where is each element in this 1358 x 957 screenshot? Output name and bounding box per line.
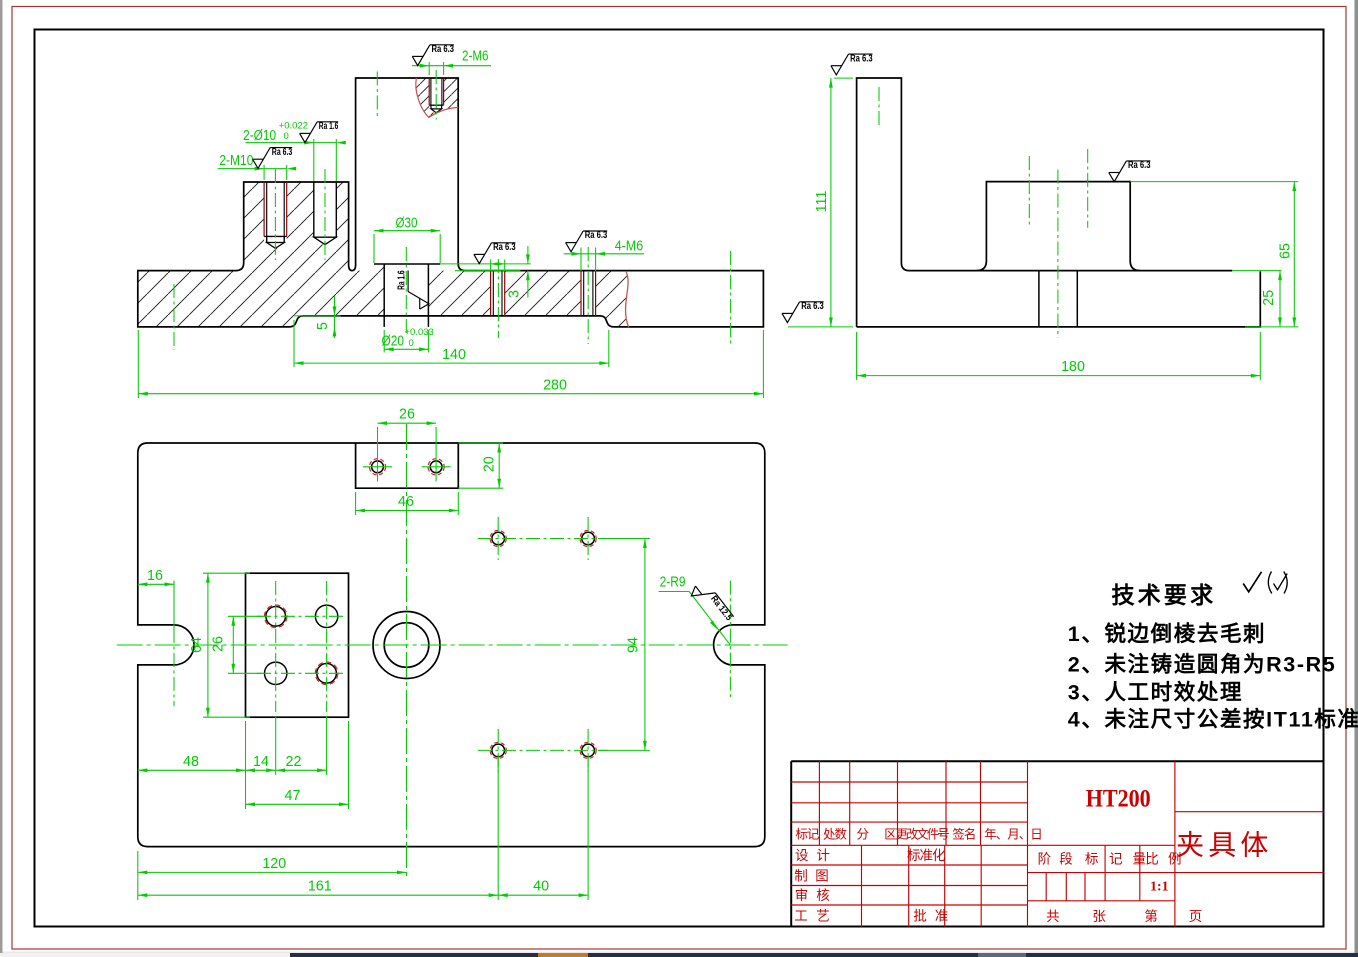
plan view: 4-M6 holes <box>492 532 505 545</box>
dimension 94 <box>598 538 650 540</box>
surface finish Ra 6.3 at boss top <box>412 44 454 66</box>
svg-text:4-M6: 4-M6 <box>615 238 644 254</box>
svg-text:张: 张 <box>1092 909 1106 924</box>
svg-text:分: 分 <box>856 828 869 842</box>
svg-text:Ra 6.3: Ra 6.3 <box>272 147 293 158</box>
section view: D10 hole <box>313 182 315 237</box>
dimension 26 boss holes <box>377 427 379 452</box>
dimension 3 counterbore depth <box>440 263 531 265</box>
surface finish Ra 6.3 side top <box>831 53 873 75</box>
svg-text:Ra 6.3: Ra 6.3 <box>432 44 455 55</box>
svg-text:140: 140 <box>442 347 466 363</box>
svg-text:2-R9: 2-R9 <box>660 575 686 591</box>
section view: M6 threaded hole at boss top <box>430 78 432 105</box>
svg-text:比: 比 <box>1145 852 1159 867</box>
svg-text:年、月、日: 年、月、日 <box>984 828 1042 842</box>
side view: outline <box>857 78 1233 327</box>
dimension 4-M6 <box>580 248 582 272</box>
section view: counterbore D30 bottom <box>374 263 440 265</box>
svg-text:65: 65 <box>1278 243 1294 259</box>
section view: M10 threaded hole <box>266 182 268 236</box>
svg-text:20: 20 <box>482 456 498 472</box>
svg-text:2-M6: 2-M6 <box>462 49 489 65</box>
dimension 140 <box>293 320 295 367</box>
svg-text:22: 22 <box>286 754 302 770</box>
dimensions 48 14 22 <box>245 721 247 775</box>
svg-text:3: 3 <box>507 290 523 298</box>
svg-text:标: 标 <box>1085 852 1099 867</box>
svg-text:更改文件号: 更改文件号 <box>895 827 949 842</box>
svg-text:图: 图 <box>815 868 829 883</box>
section view: hole centerlines <box>274 169 276 260</box>
section view: break line at boss top <box>416 78 458 117</box>
svg-text:标准化: 标准化 <box>907 848 945 863</box>
dimension 2-M10 <box>218 168 287 170</box>
surface finish note checkmarks <box>1243 572 1261 592</box>
svg-text:2、未注铸造圆角为R3-R5: 2、未注铸造圆角为R3-R5 <box>1068 652 1337 677</box>
side view: centerlines <box>878 87 880 128</box>
svg-text:161: 161 <box>308 879 332 895</box>
title block: outer border <box>791 760 1323 762</box>
svg-text:页: 页 <box>1189 909 1203 924</box>
svg-text:0: 0 <box>409 338 414 349</box>
dimension 47 <box>245 775 247 809</box>
svg-text:48: 48 <box>183 754 199 770</box>
svg-text:+0.022: +0.022 <box>279 120 308 131</box>
bottom taskbar sliver <box>3 952 1355 954</box>
section view: base hatching <box>138 264 629 327</box>
svg-text:Ra 6.3: Ra 6.3 <box>585 230 608 241</box>
svg-text:280: 280 <box>543 377 567 393</box>
section view: break line right of 4-M6 <box>626 271 629 327</box>
svg-text:Ø30: Ø30 <box>396 215 418 231</box>
svg-text:16: 16 <box>147 568 163 584</box>
svg-text:25: 25 <box>1261 290 1277 306</box>
svg-text:阶: 阶 <box>1038 852 1052 867</box>
svg-text:40: 40 <box>533 879 549 895</box>
svg-text:+0.033: +0.033 <box>405 327 434 338</box>
section view: hole D20 walls <box>383 264 385 327</box>
section view: 4-M6 threaded holes <box>492 271 494 316</box>
svg-text:标记: 标记 <box>795 828 820 842</box>
surface finish Ra 6.3 at counterbore <box>474 242 516 264</box>
svg-text:制: 制 <box>794 868 808 883</box>
svg-text:工: 工 <box>794 909 808 924</box>
svg-text:0: 0 <box>284 131 289 142</box>
surface finish Ra 1.6 in D20 hole <box>396 270 429 309</box>
svg-text:94: 94 <box>626 637 642 653</box>
svg-text:47: 47 <box>285 788 301 804</box>
section view: boss broken-out section hatching <box>416 78 458 117</box>
dimension 20 <box>458 442 503 444</box>
surface finish Ra 6.3 side bottom <box>782 301 824 323</box>
svg-text:3、人工时效处理: 3、人工时效处理 <box>1068 679 1243 704</box>
side view: hole edges in base <box>1038 271 1040 327</box>
svg-text:14: 14 <box>253 754 269 770</box>
dimension D20 +0.033/0 <box>383 330 385 353</box>
svg-text:1:1: 1:1 <box>1150 879 1169 894</box>
svg-text:2-M10: 2-M10 <box>219 153 253 169</box>
svg-text:签名: 签名 <box>952 827 975 842</box>
svg-text:准: 准 <box>935 909 949 924</box>
surface finish Ra 6.3 at 4-M6 <box>566 230 608 252</box>
svg-text:HT200: HT200 <box>1086 786 1151 813</box>
dimension 46 <box>355 492 357 515</box>
plan view: main centerlines <box>117 644 788 646</box>
dimension 2-D10 +0.022/0 <box>245 142 337 144</box>
svg-text:审: 审 <box>795 888 809 903</box>
svg-text:2-Ø10: 2-Ø10 <box>243 128 276 144</box>
dimension 280 <box>137 330 139 398</box>
svg-text:技术要求: 技术要求 <box>1112 582 1217 608</box>
svg-text:64: 64 <box>189 637 205 653</box>
plan view: 2-M10 and 2-D10 holes <box>266 607 286 627</box>
plan view: boss block <box>356 443 459 488</box>
dimension 180 <box>856 332 858 380</box>
svg-text:记: 记 <box>1109 852 1123 867</box>
dimension 65 <box>1130 181 1298 183</box>
surface finish Ra 6.3 middle block <box>1109 160 1151 182</box>
svg-text:120: 120 <box>262 856 286 872</box>
svg-text:设: 设 <box>795 848 809 863</box>
dimension 16 <box>173 581 175 631</box>
svg-text:计: 计 <box>816 848 830 863</box>
dimension 64 <box>203 572 250 574</box>
svg-text:1、锐边倒棱去毛刺: 1、锐边倒棱去毛刺 <box>1068 621 1266 646</box>
plan view: center D30/D20 bore <box>373 612 440 679</box>
svg-text:夹具体: 夹具体 <box>1176 830 1272 861</box>
dimension 5 recess depth <box>294 315 341 317</box>
svg-text:111: 111 <box>814 191 830 213</box>
svg-text:处数: 处数 <box>823 827 848 842</box>
svg-text:Ra 1.6: Ra 1.6 <box>319 121 339 132</box>
dimensions 161 and 40 <box>137 877 139 900</box>
svg-text:Ra 1.6: Ra 1.6 <box>396 270 407 290</box>
plan view: four-hole block <box>246 573 349 717</box>
svg-text:180: 180 <box>1061 359 1085 375</box>
left gray edge strip <box>0 0 3 957</box>
svg-text:批: 批 <box>913 909 927 924</box>
svg-text:Ra 6.3: Ra 6.3 <box>1128 160 1151 171</box>
svg-text:26: 26 <box>399 407 415 423</box>
dimension 25 <box>1232 270 1281 272</box>
svg-text:26: 26 <box>211 636 227 652</box>
M6 hole width arrows <box>491 262 498 265</box>
surface finish Ra 12.5 at notch <box>688 578 734 629</box>
svg-text:Ø20: Ø20 <box>382 334 405 350</box>
dimension 2-M6 <box>428 62 430 75</box>
section view: left block hatching <box>244 182 349 271</box>
svg-text:第: 第 <box>1144 908 1158 924</box>
svg-text:5: 5 <box>315 322 331 330</box>
plan view: 2-M6 holes in boss <box>372 461 384 473</box>
svg-text:段: 段 <box>1059 852 1073 867</box>
plan view: outline with R9 notches <box>138 443 765 847</box>
svg-text:核: 核 <box>816 888 830 903</box>
dimension 111 <box>834 77 853 79</box>
svg-text:共: 共 <box>1046 909 1060 924</box>
section view: part outline <box>138 78 764 327</box>
svg-text:艺: 艺 <box>816 909 830 924</box>
dimension 120 <box>137 851 139 877</box>
dimension 26 hole rows <box>228 615 262 617</box>
svg-text:Ra 6.3: Ra 6.3 <box>850 53 873 64</box>
svg-text:量: 量 <box>1133 852 1147 867</box>
svg-text:4、未注尺寸公差按IT11标准: 4、未注尺寸公差按IT11标准 <box>1068 706 1358 731</box>
right gray edge strip <box>1355 0 1358 957</box>
svg-text:Ra 6.3: Ra 6.3 <box>801 301 824 312</box>
svg-text:Ra 6.3: Ra 6.3 <box>493 242 516 253</box>
svg-text:46: 46 <box>398 494 414 510</box>
title block: red grid lines <box>1027 761 1029 926</box>
